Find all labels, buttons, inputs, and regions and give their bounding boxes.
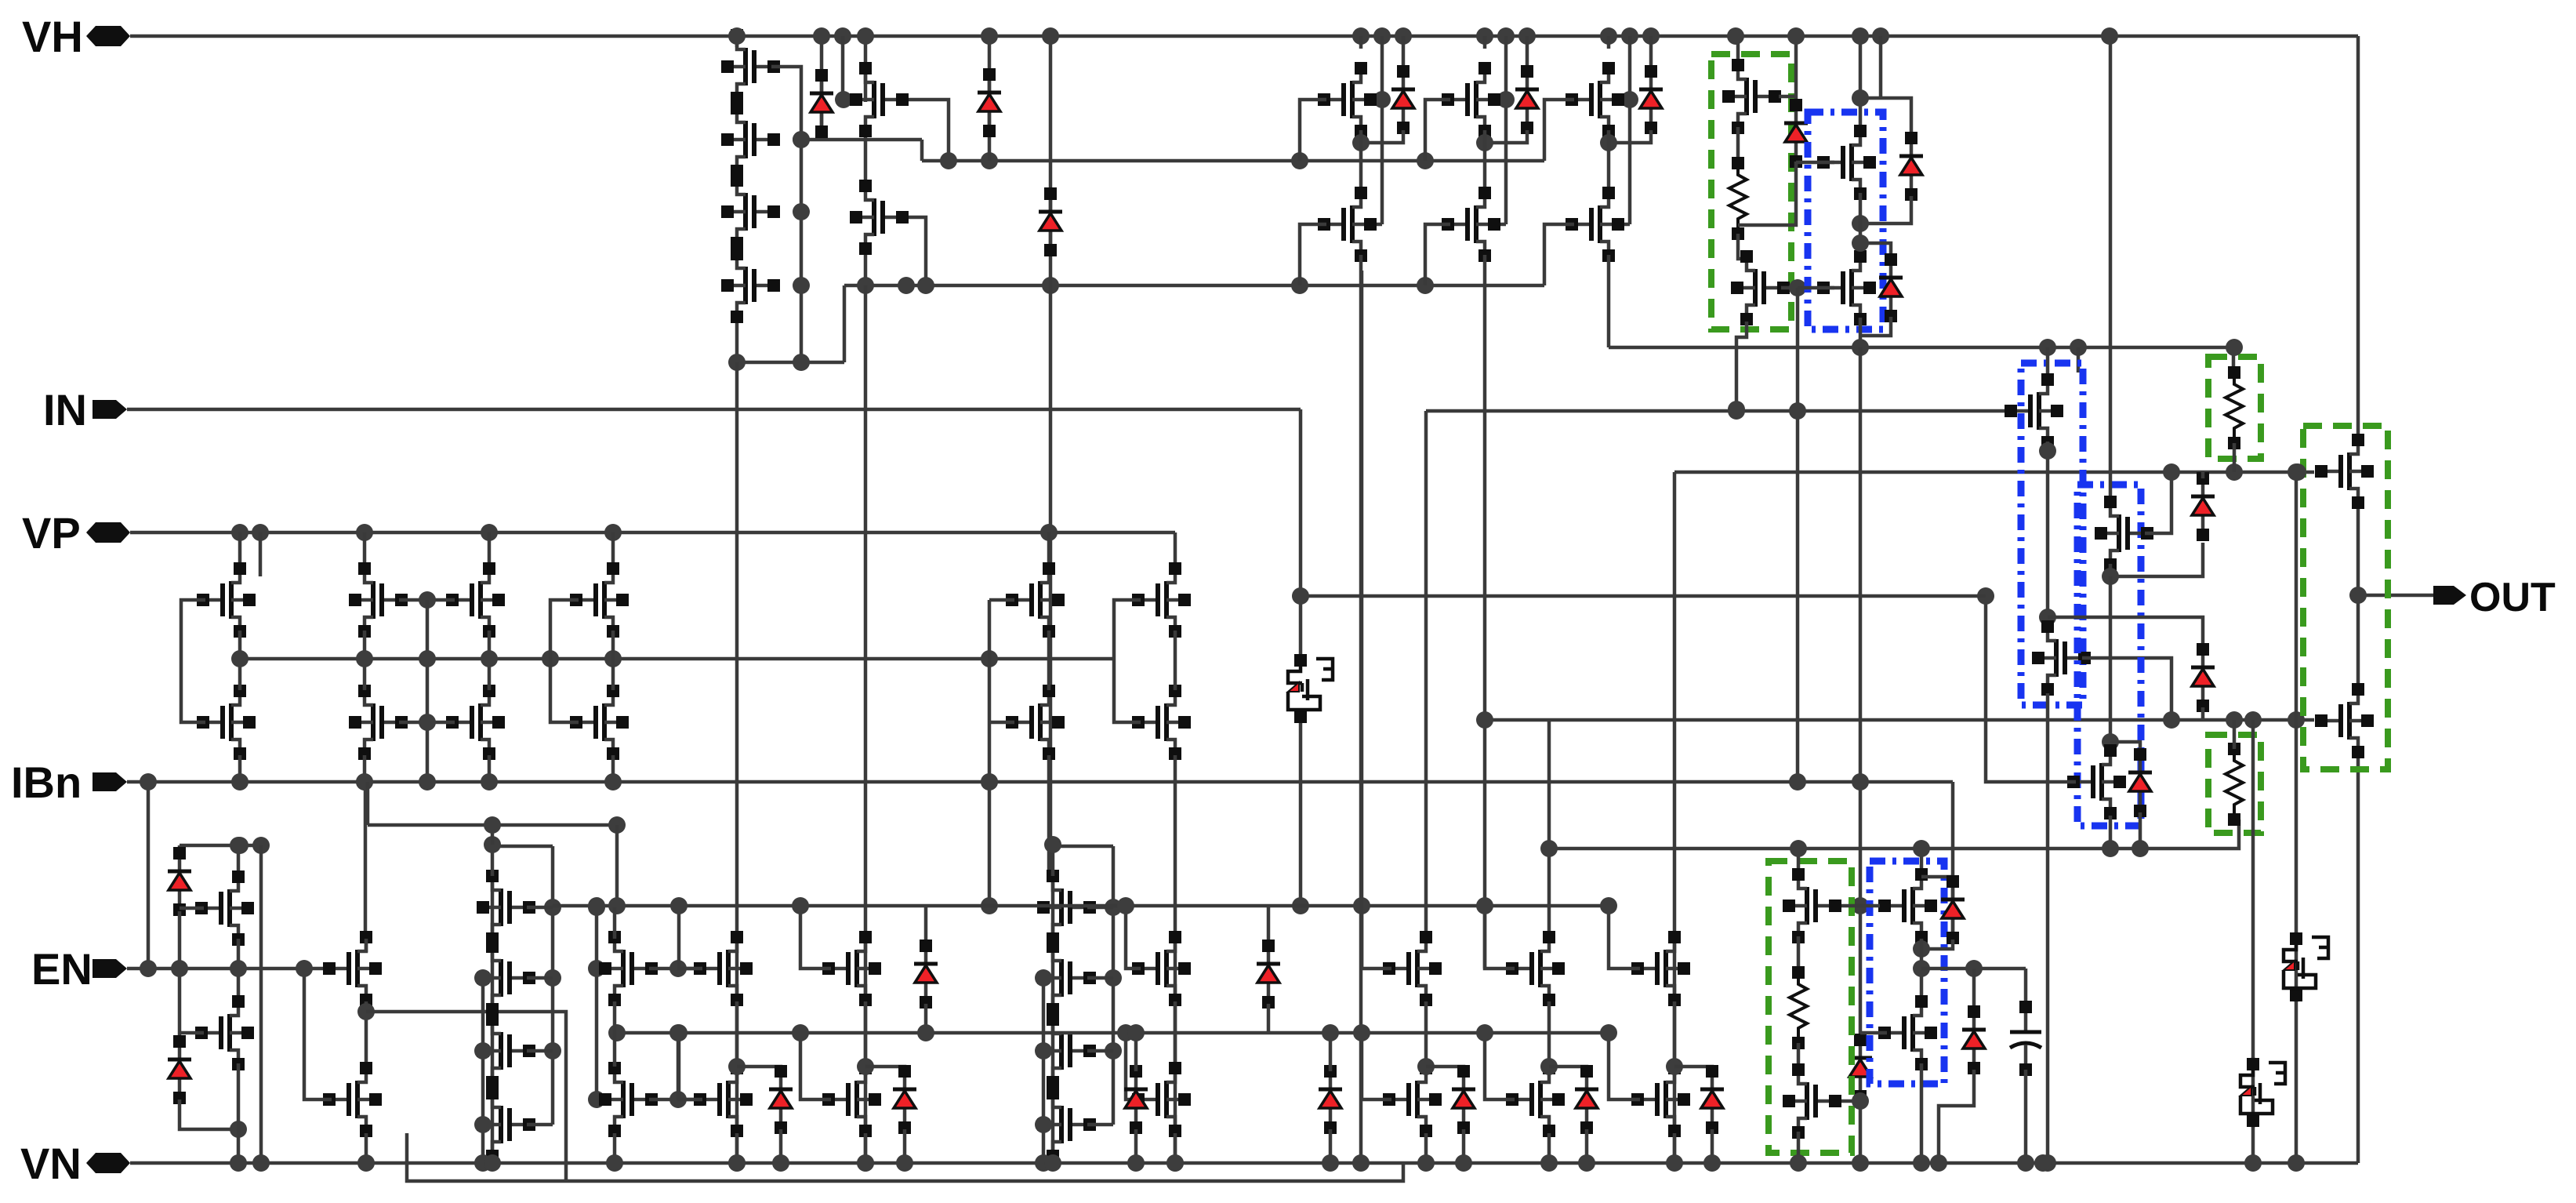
transistor M36: [599, 931, 658, 1006]
transistor M25: [446, 685, 505, 760]
wire M33 source to VN: [237, 1063, 241, 1163]
junction M16 source: [2102, 568, 2119, 585]
junction VN x1697: [1322, 1154, 1339, 1172]
transistor M9b: [1566, 187, 1624, 262]
junction cell9 source node: [1600, 134, 1617, 151]
junction x2373 M45 gate: [1852, 1092, 1869, 1110]
wire B4 chain: [1920, 939, 1924, 1004]
wire stack3 chain: [1051, 876, 1055, 1156]
wire D12 bottom to y1075: [2139, 812, 2142, 849]
junction VN x1736: [1352, 1154, 1370, 1172]
transistor M12 in B1: [1817, 125, 1876, 200]
junction M17 drain node: [2102, 733, 2119, 751]
wire M5-M6 chain: [864, 133, 868, 184]
wire mirror D1 drain: [1047, 532, 1051, 570]
junction IBn x624: [481, 773, 498, 790]
junction VN x2136: [1666, 1154, 1683, 1172]
transistor stack3 M1: [1037, 870, 1096, 945]
junction VH cell8 bulk drop: [1497, 27, 1515, 45]
wire D7 to resistor bottom: [1738, 162, 1796, 225]
wire M41 chain: [1424, 1001, 1428, 1067]
junction M12 source node: [1852, 215, 1869, 232]
junction y1235 x2518: [1965, 960, 1983, 977]
junction y1075 x2730: [2132, 840, 2149, 857]
transistor M41a: [1383, 931, 1442, 1006]
wire: [527, 1049, 553, 1053]
diode D cell9: [1639, 65, 1663, 134]
wire stack3 bulk bus: [1042, 978, 1046, 1163]
junction y1317 x1737: [1353, 1024, 1370, 1041]
junction y1317 x1449: [1127, 1024, 1145, 1041]
junction M46 source: [1913, 940, 1930, 958]
junction y1290: [357, 1003, 375, 1020]
diode D7: [1784, 99, 1808, 168]
wire mirror B1 drain: [363, 532, 367, 566]
junction VP x624: [481, 524, 498, 541]
junction x1022 y462: [793, 354, 810, 371]
junction VP x1338: [1040, 524, 1058, 541]
junction VN x2473: [1930, 1154, 1947, 1172]
wire D20 branch: [924, 906, 928, 946]
wire x1340 drop to stack3: [1049, 285, 1053, 876]
junction y443 x2850: [2226, 339, 2243, 356]
junction: [588, 897, 605, 914]
wire diode D3 branch / x1340 long drop: [1049, 36, 1053, 285]
net y178 link: [801, 138, 922, 142]
wire M40 chain: [1174, 1001, 1177, 1067]
junction VH cell7 drain: [1352, 27, 1370, 45]
wire x2929 column: [2295, 472, 2298, 1163]
junction y1052 x787: [608, 816, 626, 834]
wire x189 IBn-EN: [147, 782, 151, 969]
junction VN x1867: [1455, 1154, 1472, 1172]
wire x2373 long drop: [1859, 347, 1863, 1035]
junction IBn x189: [140, 773, 157, 790]
wire cell9 drain stub: [1607, 36, 1611, 49]
resistor R4 in G4: [1790, 966, 1807, 1049]
transistor M47 in B4: [1878, 995, 1937, 1070]
junction VN x2874: [2244, 1154, 2262, 1172]
junction VN bulk stack3: [1035, 1154, 1052, 1172]
diode D22: [1124, 1065, 1148, 1134]
wire cell3 source stub: [1607, 255, 1611, 271]
junction VN x1499: [1166, 1154, 1184, 1172]
wire x2136 drop to VN: [1673, 472, 1677, 1163]
junction VN x2584: [2017, 1154, 2034, 1172]
wire cell1 source drop to VN: [1359, 255, 1363, 1163]
wire M36-M37 chain: [613, 1001, 617, 1067]
transistor M42a: [1506, 931, 1565, 1006]
net mirror rail y840: [240, 657, 1114, 661]
group box G4 (green dashed): [1769, 861, 1852, 1153]
wire D9 bottom loop: [1860, 317, 1891, 336]
transistor M32: [195, 870, 254, 946]
junction VH x1104: [857, 27, 874, 45]
wire M39a gate riser: [800, 906, 831, 969]
wire: [1087, 976, 1113, 980]
junction VN x2184: [1703, 1154, 1721, 1172]
wire D cell43 to VN: [1711, 1129, 1714, 1163]
group box B1 (blue dash-dot): [1808, 112, 1883, 329]
net EN rail: [127, 967, 332, 971]
wire stack2 chain: [491, 876, 495, 1156]
junction x2373 y1155: [1852, 897, 1869, 914]
net rail y443: [1609, 346, 2233, 350]
junction stack2 bulk bus: [474, 1116, 492, 1133]
wire M47 gate tie: [1860, 1031, 1887, 1035]
stub: [1051, 1156, 1055, 1163]
diode D19: [1319, 1065, 1342, 1134]
wire mirror C source: [611, 755, 615, 782]
wire cell9 bulk jog: [1618, 223, 1630, 227]
wire M7b gate to y364: [1300, 224, 1326, 285]
junction M15 drain node: [2039, 609, 2056, 626]
port pin IN: [93, 400, 127, 419]
junction EN x304: [230, 960, 247, 977]
junction VH x2399: [1872, 27, 1889, 45]
wire M32 gate: [180, 907, 204, 910]
junction stack3 bulk bus: [1035, 969, 1052, 987]
wire stack1 drain to VH: [735, 36, 739, 47]
junction y364 x1104: [857, 277, 874, 294]
wire M43b gate riser: [1609, 1033, 1640, 1099]
svg-text:EN: EN: [31, 944, 93, 994]
wire: [527, 1123, 553, 1127]
wire cell9 diode branch: [1649, 36, 1653, 75]
junction y364 x1181: [917, 277, 934, 294]
junction y1317 x1181: [917, 1024, 934, 1041]
junction y1317 x866: [670, 1024, 688, 1041]
junction VP x306: [231, 524, 249, 541]
junction stack2 gate bus: [544, 899, 561, 916]
junction y602 x2929: [2288, 463, 2305, 481]
wire D22 bottom: [1134, 1129, 1138, 1163]
wire M35 source to VN: [365, 1133, 368, 1163]
wire B1 mid: [1859, 193, 1863, 255]
wire M7a gate to y205: [1300, 100, 1326, 161]
transistor M35: [323, 1062, 382, 1137]
net y1290 link: [366, 1012, 566, 1181]
transistor M17 in B3: [2067, 744, 2126, 820]
diode D17: [168, 847, 191, 916]
junction IBn x465: [356, 773, 373, 790]
transistor M12 of VH stack: [721, 102, 780, 177]
wire M5 drain from VH: [864, 36, 868, 102]
net VP rail: [130, 531, 1175, 535]
junction VN x304: [230, 1154, 247, 1172]
diode D3: [1039, 187, 1062, 256]
diode D cell38: [769, 1065, 793, 1134]
wire M5 gate to y205: [909, 100, 949, 161]
junction VH x1262: [981, 27, 998, 45]
net loop y1078: [180, 844, 261, 848]
junction stack2 bulk bus: [474, 969, 492, 987]
net y760 link: [1301, 594, 1986, 598]
junction VP x465: [356, 524, 373, 541]
wire M8b gate to y364: [1425, 224, 1450, 285]
wire M6 gate to y364: [909, 217, 926, 285]
junction OUT node: [2349, 587, 2367, 604]
wire mirror C drain: [611, 532, 615, 570]
junction VN x1499: [1166, 1154, 1184, 1172]
junction VN x940: [728, 1154, 746, 1172]
wire B1 drain from VH: [1859, 36, 1863, 127]
diode D10: [2191, 472, 2215, 541]
wire diode D1 branch: [820, 36, 824, 140]
svg-text:VP: VP: [22, 508, 81, 558]
transistor stack3 M3: [1037, 1013, 1096, 1089]
junction VN x2606: [2034, 1154, 2052, 1172]
wire M39 chain: [864, 1001, 868, 1067]
junction IBn x306: [231, 773, 249, 790]
junction y918 x2770: [2163, 711, 2180, 729]
junction VN x1343: [1044, 1154, 1061, 1172]
net output column mid: [2356, 507, 2360, 685]
wire M43b source: [1673, 1133, 1677, 1163]
net OUT wire: [2358, 594, 2436, 598]
wire M34-M35 chain: [365, 1001, 368, 1067]
diode D cell39: [893, 1065, 916, 1134]
wire M43 chain: [1673, 1001, 1677, 1067]
wire cell7 diode return: [1361, 130, 1403, 143]
junction y1155 x1894: [1476, 897, 1493, 914]
junction y1317 x2052: [1600, 1024, 1617, 1041]
wire x333 drop to VN: [259, 845, 263, 1163]
transistor M11 in G1: [1731, 250, 1790, 325]
wire M40b source: [1174, 1133, 1177, 1163]
wire D11 top from M15 drain node: [2048, 617, 2203, 649]
wire mirror D1 source to stack3: [1047, 755, 1051, 876]
wire R2 to y602: [2233, 443, 2237, 472]
wire M15 gate to y918 rail: [2082, 658, 2171, 720]
diode D2: [978, 68, 1001, 137]
wire: [1797, 936, 1801, 974]
junction VH x2373: [1852, 27, 1869, 45]
wire G4 top: [1797, 849, 1801, 874]
junction VH cell7 bulk drop: [1373, 27, 1391, 45]
junction y1317 x1894: [1476, 1024, 1493, 1041]
wire M36 drain: [613, 907, 617, 939]
wire D cell42 to VN: [1585, 1129, 1589, 1163]
junction VH x940: [728, 27, 746, 45]
wire M41b gate riser: [1362, 1033, 1391, 1099]
wire cell7 bulk drop: [1381, 36, 1384, 224]
junction VN x2929: [2288, 1154, 2305, 1172]
wire: [527, 976, 553, 980]
junction cell8 bulk: [1497, 91, 1515, 108]
wire M41a gate riser: [1362, 906, 1391, 969]
wire M40b gate riser: [1126, 1033, 1141, 1099]
transistor M26: [570, 562, 629, 638]
junction y1155 x1659: [1292, 897, 1309, 914]
diode D8: [1899, 132, 1923, 201]
wire riser x1077: [843, 285, 847, 362]
net bottom link y1506: [407, 1133, 1403, 1181]
wire D16 return to VN: [1939, 1070, 1974, 1163]
wire M37 gate row: [649, 1098, 695, 1102]
wire cell7 mid: [1359, 130, 1363, 192]
junction y443s: [2039, 339, 2056, 356]
junction y1317 x1021: [792, 1024, 809, 1041]
capacitor C1: [2010, 1001, 2041, 1076]
transistor M5: [850, 62, 909, 137]
wire cell9 mid: [1607, 130, 1611, 192]
wire cell8 diode return: [1485, 130, 1527, 143]
junction y1078s: [231, 837, 249, 854]
wire M8a gate to y205: [1425, 100, 1450, 161]
wire: [491, 825, 495, 845]
junction y524 x2215: [1728, 402, 1745, 420]
junction y1317 x865: [669, 1024, 687, 1041]
wire mirror D1 chain: [1047, 631, 1051, 690]
junction y918 x1894: [1476, 711, 1493, 729]
wire M29 gate: [989, 721, 1014, 725]
stub: [491, 1156, 495, 1163]
wire M17 source to y1075: [2109, 816, 2113, 849]
wire D8 top loop: [1860, 98, 1911, 133]
junction y178: [793, 131, 810, 148]
wire D cell38 to VN: [779, 1129, 783, 1163]
junction stack2 gate bus: [544, 969, 561, 987]
port pin IBn: [93, 772, 127, 791]
junction EN x388: [296, 960, 313, 977]
wire cell1 source drop x1737: [1360, 271, 1364, 969]
transistor M38a: [694, 931, 753, 1006]
wire D8 bottom loop: [1860, 196, 1911, 224]
wire M35 gate riser: [304, 969, 332, 1099]
wire D12 top loop: [2110, 742, 2140, 754]
junction y1235 x2451: [1913, 960, 1930, 977]
wire M42a gate riser: [1485, 906, 1515, 969]
group box G5 (green dashed): [2303, 426, 2388, 769]
transistor M46 in B4: [1878, 868, 1937, 943]
transistor M29: [1006, 685, 1065, 760]
junction stack3 gate bus: [1105, 899, 1122, 916]
junction VH x2691: [2101, 27, 2118, 45]
junction VN x467: [357, 1154, 375, 1172]
wire x1976 column: [1547, 720, 1551, 938]
svg-text:VH: VH: [22, 12, 83, 61]
junction y1402 x865: [669, 1091, 687, 1108]
junction y602 x2850: [2226, 463, 2243, 481]
wire D22 top: [1134, 1033, 1138, 1071]
wire M42b gate riser: [1485, 1033, 1515, 1099]
diode D9: [1879, 253, 1903, 322]
junction y1155 x866: [670, 897, 688, 914]
junction gate tie 2: [419, 714, 436, 731]
port pin VH: [86, 26, 130, 46]
port pin OUT: [2433, 586, 2466, 605]
wire D21 bottom: [1267, 1004, 1271, 1033]
junction VN x1104: [857, 1154, 874, 1172]
transistor M41b: [1383, 1062, 1442, 1137]
junction stack1 gate bus: [793, 277, 810, 294]
junction stack1 gate bus: [793, 131, 810, 148]
junction D top cell42: [1540, 1058, 1558, 1075]
wire D21 branch: [1267, 906, 1271, 946]
wire cell3 source drop: [1607, 271, 1611, 347]
junction y364 buss: [898, 277, 915, 294]
wire riser x469: [366, 782, 370, 825]
wire B2 mid chain: [2046, 442, 2050, 617]
wire stub x2399: [1879, 36, 1883, 98]
transistor M39b: [822, 1062, 881, 1137]
wire y1235 to C1: [2024, 969, 2028, 1012]
wire mirror B2 chain: [488, 631, 492, 690]
junction VN x333: [252, 1154, 270, 1172]
junction y443 x2373: [1852, 339, 1869, 356]
junction y602 x2770: [2163, 463, 2180, 481]
junction VN x2373: [1852, 1154, 1869, 1172]
diode D cell7: [1391, 65, 1415, 134]
wire mirror A source to IBn: [238, 755, 242, 782]
net VN rail: [130, 1161, 2358, 1165]
wire: [527, 906, 553, 910]
junction cell9 bulk: [1621, 91, 1638, 108]
junction stack3 bulk bus: [1035, 1042, 1052, 1059]
junction y1317 x787: [608, 1024, 626, 1041]
wire M44 gate: [1841, 904, 1860, 908]
junction EN x189: [140, 960, 157, 977]
net gate bus y1317: [617, 1031, 1609, 1035]
junction x2533 y760: [1977, 587, 1994, 605]
group box G3 (green dashed): [2208, 735, 2261, 833]
wire R1 to M11 drain: [1738, 234, 1747, 259]
group box G2 (green dashed): [2208, 357, 2261, 459]
transistor M42b: [1506, 1062, 1565, 1137]
junction VN x1819: [1417, 1154, 1435, 1172]
junction y1075 x1976s: [1540, 840, 1558, 857]
junction VN x2612: [2039, 1154, 2056, 1172]
wire cell8 bulk jog: [1494, 223, 1506, 227]
wire mirror D2 chain: [1174, 631, 1177, 690]
transistor M18 output high: [2315, 434, 2374, 509]
net bottom gate rail y918: [1485, 718, 2314, 722]
wire cell7 drain stub: [1359, 36, 1363, 49]
junction B2: [2039, 442, 2056, 460]
wire stack2 bulk bus: [481, 978, 485, 1163]
junction VH cell8 drain: [1476, 27, 1493, 45]
transistor M44 in G4: [1783, 868, 1841, 943]
junction IBn x545: [419, 773, 436, 790]
junction VH cell9 diode drop: [1642, 27, 1660, 45]
wire M11 gate: [1781, 286, 1798, 290]
junction EN x229: [171, 960, 188, 977]
junction VP x782: [604, 524, 622, 541]
wire Q3 to y1155 bus: [1299, 724, 1303, 906]
net top gate bus y205: [922, 159, 1544, 163]
junction gate node y367: [1789, 279, 1806, 296]
junction VH x2291: [1787, 27, 1805, 45]
wire mirror B1 source: [363, 755, 367, 782]
wire x229 mid: [178, 911, 182, 1039]
wire mirror A gates tie: [181, 600, 205, 722]
wire M33 gate: [180, 1031, 204, 1035]
wire mirror A drain: [238, 532, 242, 570]
resistor R3 in G3: [2226, 743, 2243, 826]
wire bulk drop x1075: [843, 36, 851, 100]
wire B3 drain from VH: [2109, 36, 2113, 505]
resistor R1 in G1: [1729, 157, 1747, 240]
wire D9 top loop: [1860, 243, 1891, 255]
junction IBn x1262: [981, 773, 998, 790]
wire D19 top: [1329, 1033, 1333, 1071]
wire: [1797, 1043, 1801, 1067]
transistor M15 in B2: [2032, 620, 2091, 696]
wire cell8 diode branch: [1526, 36, 1529, 75]
junction y1155 x1436: [1117, 897, 1134, 914]
diode D1: [810, 69, 833, 138]
